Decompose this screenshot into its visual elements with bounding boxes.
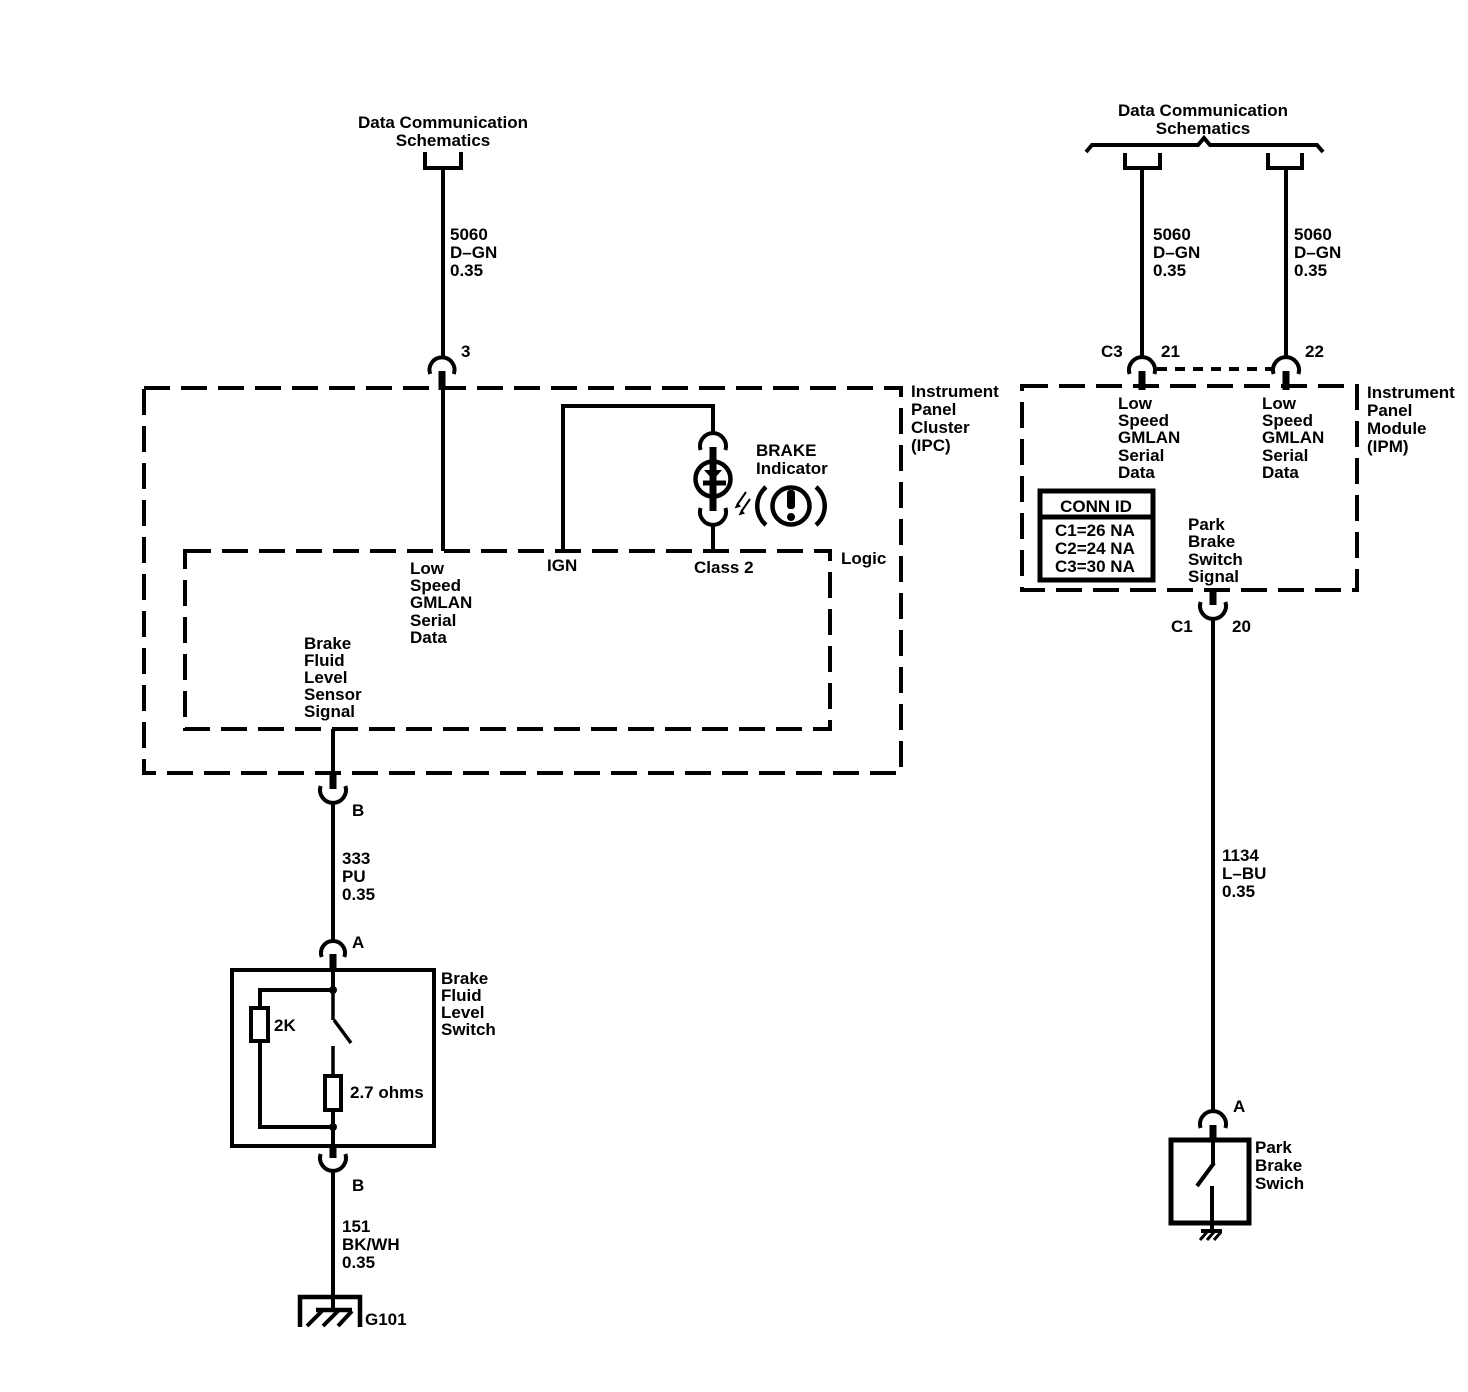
brace over right off-page references [1086,138,1323,152]
wire 1134 from IPM to park brake switch [1211,619,1215,1112]
connector pin 20 C1 (IPM bottom) [1200,590,1226,619]
svg-text:Class 2: Class 2 [694,558,754,577]
svg-text:GMLAN: GMLAN [410,593,472,612]
svg-text:C1: C1 [1171,617,1193,636]
svg-text:Module: Module [1367,419,1427,438]
svg-text:Park: Park [1255,1138,1292,1157]
svg-text:Schematics: Schematics [1156,119,1251,138]
node Data Communication Schematics (left off-page reference label) [358,113,528,150]
svg-text:333: 333 [342,849,370,868]
svg-text:BK/WH: BK/WH [342,1235,400,1254]
Instrument Panel Module IPM dashed box [1022,386,1357,590]
off-page connector bracket (right, wire 22) [1268,153,1302,168]
connector pin A (switch top) [321,941,345,971]
node Data Communication Schematics (right off-page reference label) [1118,101,1288,138]
off-page connector bracket (left) [425,152,461,168]
svg-text:D–GN: D–GN [1294,243,1341,262]
connector pin 21 (IPM) [1129,357,1155,390]
node Low Speed GMLAN Serial Data (IPM pin 21 label) [1118,394,1180,482]
svg-text:Instrument: Instrument [911,382,999,401]
svg-text:2K: 2K [274,1016,296,1035]
svg-text:G101: G101 [365,1310,407,1329]
svg-text:PU: PU [342,867,366,886]
svg-text:Schematics: Schematics [396,131,491,150]
svg-text:B: B [352,1176,364,1195]
svg-text:BRAKE: BRAKE [756,441,816,460]
wire 5060 from Data Communication Schematics to IPC pin 3 [441,168,445,358]
lamp socket upper arc [700,433,726,450]
Logic inner dashed box [185,551,830,729]
wire label 5060 D-GN 0.35 (left) [450,225,497,280]
svg-text:A: A [1233,1097,1245,1116]
svg-text:(IPC): (IPC) [911,436,951,455]
svg-text:21: 21 [1161,342,1180,361]
node junction bottom [329,1123,337,1131]
wire label 333 PU 0.35 [342,849,375,904]
park brake switch blade [1197,1140,1214,1231]
ground G101 [300,1297,360,1327]
svg-text:B: B [352,801,364,820]
wire from 2K to bottom junction [260,1041,333,1127]
svg-text:C3=30 NA: C3=30 NA [1055,557,1135,576]
label Instrument Panel Cluster (IPC) [911,382,999,455]
svg-text:Signal: Signal [1188,567,1239,586]
svg-text:5060: 5060 [450,225,488,244]
svg-text:D–GN: D–GN [1153,243,1200,262]
svg-text:1134: 1134 [1222,846,1259,865]
svg-text:Data: Data [1262,463,1299,482]
node Low Speed GMLAN Serial Data (IPC pin label) [410,559,472,647]
svg-text:Brake: Brake [1255,1156,1302,1175]
svg-text:0.35: 0.35 [1153,261,1186,280]
wire from pin A into switch [331,971,335,990]
node Park Brake Switch Signal (IPM pin label) [1188,515,1243,586]
svg-text:Panel: Panel [1367,401,1412,420]
LED emission arrows [735,492,751,516]
wire Class 2 from lamp to logic box [711,525,715,551]
svg-text:Instrument: Instrument [1367,383,1455,402]
wire 5060 to IPM pin 21 [1140,168,1144,357]
svg-text:C3: C3 [1101,342,1123,361]
svg-text:Indicator: Indicator [756,459,828,478]
svg-text:5060: 5060 [1153,225,1191,244]
off-page connector bracket (right, wire 21) [1125,153,1160,168]
ground (park brake switch) [1200,1231,1222,1240]
lamp socket lower arc [700,508,726,525]
resistor 2K [251,1008,268,1041]
svg-text:(IPM): (IPM) [1367,437,1409,456]
wire 151 to ground [331,1171,335,1310]
svg-text:5060: 5060 [1294,225,1332,244]
wire IGN from logic box to lamp branch [563,406,713,551]
LED indicator lamp (BRAKE) [696,447,731,511]
svg-text:0.35: 0.35 [342,885,375,904]
svg-text:Cluster: Cluster [911,418,970,437]
label BRAKE Indicator [756,441,828,478]
svg-text:2.7 ohms: 2.7 ohms [350,1083,424,1102]
connector pin B (IPC bottom) [320,774,346,803]
svg-text:Data Communication: Data Communication [358,113,528,132]
connector pin B (switch bottom) [320,1146,346,1171]
wire to 2K resistor [260,990,333,1008]
svg-text:L–BU: L–BU [1222,864,1266,883]
svg-text:0.35: 0.35 [342,1253,375,1272]
svg-text:Panel: Panel [911,400,956,419]
svg-text:Data: Data [410,628,447,647]
Instrument Panel Cluster IPC dashed box [144,388,901,773]
dotted link between pins 21 and 22 [1157,367,1272,371]
svg-text:IGN: IGN [547,556,577,575]
svg-text:Data: Data [1118,463,1155,482]
wire label 5060 D-GN 0.35 (pin 21) [1153,225,1200,280]
Park Brake Switch box [1171,1140,1249,1223]
svg-text:22: 22 [1305,342,1324,361]
resistor 2.7 ohms [325,1076,341,1110]
svg-text:D–GN: D–GN [450,243,497,262]
connector pin 22 (IPM) [1273,357,1299,390]
label Park Brake Swich [1255,1138,1304,1193]
node junction top [329,986,337,994]
svg-text:Signal: Signal [304,702,355,721]
node Brake Fluid Level Sensor Signal (IPC pin label) [304,634,362,721]
svg-text:Switch: Switch [441,1020,496,1039]
svg-text:GMLAN: GMLAN [1262,428,1324,447]
svg-text:20: 20 [1232,617,1251,636]
wire label 5060 D-GN 0.35 (pin 22) [1294,225,1341,280]
svg-text:C2=24 NA: C2=24 NA [1055,539,1135,558]
wire label 1134 L-BU 0.35 [1222,846,1266,901]
svg-text:151: 151 [342,1217,370,1236]
svg-text:C1=26 NA: C1=26 NA [1055,521,1135,540]
svg-text:A: A [352,933,364,952]
Brake Fluid Level Switch box [232,970,434,1146]
svg-text:Swich: Swich [1255,1174,1304,1193]
svg-text:Brake: Brake [1188,532,1235,551]
svg-text:0.35: 0.35 [1294,261,1327,280]
wire sensor signal from logic box to IPC pin B [331,729,335,773]
svg-text:Data Communication: Data Communication [1118,101,1288,120]
connector pin 3 (IPC) [430,357,455,390]
svg-text:Logic: Logic [841,549,886,568]
svg-text:0.35: 0.35 [450,261,483,280]
wire 333 from IPC to switch [331,803,335,941]
label Instrument Panel Module (IPM) [1367,383,1455,456]
node Low Speed GMLAN Serial Data (IPM pin 22 label) [1262,394,1324,482]
wire 5060 to IPM pin 22 [1284,168,1288,357]
switch blade S (brake fluid level) [333,990,351,1076]
svg-text:GMLAN: GMLAN [1118,428,1180,447]
connector pin A (park brake switch) [1200,1111,1226,1140]
svg-text:3: 3 [461,342,470,361]
CONN ID table [1040,491,1153,580]
brake warning indicator icon [757,487,825,525]
wire resistor to bottom junction [331,1110,335,1146]
svg-text:0.35: 0.35 [1222,882,1255,901]
label Brake Fluid Level Switch [441,969,496,1039]
wire label 151 BK/WH 0.35 [342,1217,400,1272]
wire GMLAN serial data inside IPC [441,390,445,551]
svg-text:CONN ID: CONN ID [1060,497,1132,516]
